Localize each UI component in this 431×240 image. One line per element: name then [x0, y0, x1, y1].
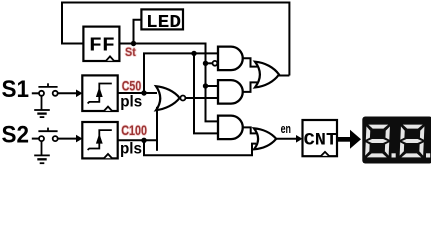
wire LED tap — [134, 20, 142, 44]
wire AND3 to OR2 — [243, 127, 256, 133]
wire C100 down around to OR2 — [144, 140, 256, 155]
wire S2 to pulse box — [58, 138, 78, 140]
wire C50 branch up to AND1 — [144, 53, 218, 93]
wire feedback top — [62, 3, 289, 76]
node St-AND1 junction — [203, 61, 208, 66]
decimal point 1 — [392, 153, 396, 157]
node C50 junction — [141, 90, 146, 95]
svg-text:pls: pls — [120, 141, 142, 158]
wire OR1 output — [279, 75, 289, 77]
gate AND3 — [218, 116, 243, 140]
wire St to AND1 bubble — [206, 62, 213, 64]
LED indicator — [141, 9, 183, 33]
svg-text:C100: C100 — [121, 122, 147, 138]
pulse shaper box C50 — [82, 75, 117, 111]
wire C50 to NOR — [118, 92, 157, 94]
gate OR2 (enable) — [254, 128, 276, 149]
wire C100 up to NOR second input — [156, 107, 158, 151]
wire AND2 to OR1 — [243, 82, 257, 92]
push button S2 — [38, 128, 57, 142]
arrow into CNT — [296, 135, 303, 143]
wire NOR output to AND2 — [185, 97, 218, 99]
arrow into C100 box — [76, 135, 83, 143]
digit 1 (8) — [365, 125, 390, 158]
wire AND1 to OR1 — [243, 58, 257, 66]
wire S1 to pulse box — [58, 92, 78, 94]
seven-segment display panel — [362, 117, 431, 164]
wire C50 branch down to AND3 — [194, 53, 218, 133]
svg-text:pls: pls — [120, 93, 142, 110]
node St-AND2 junction — [203, 83, 208, 88]
pulse shaper box C100 — [82, 122, 117, 158]
svg-text:LED: LED — [146, 13, 181, 33]
node C50 upper junction — [191, 51, 196, 56]
big arrow CNT to display — [338, 130, 361, 149]
svg-text:S2: S2 — [2, 122, 30, 149]
wire S1 label stub — [32, 92, 39, 94]
counter CNT — [303, 120, 338, 156]
gate NOR (C50/C100) — [156, 86, 185, 110]
arrow into C50 box — [76, 90, 83, 98]
svg-text:FF: FF — [89, 34, 115, 56]
ground (S1) — [34, 96, 50, 117]
wire OR2 to CNT en — [276, 138, 296, 140]
flip-flop U1 FF — [83, 27, 119, 61]
svg-text:St: St — [125, 45, 136, 59]
ground (S2) — [34, 141, 50, 163]
wire C100 out — [118, 139, 157, 141]
wire S2 label stub — [32, 138, 39, 140]
digit 2 (8) — [400, 125, 425, 158]
svg-text:CNT: CNT — [304, 130, 338, 150]
svg-text:C50: C50 — [122, 77, 142, 93]
svg-text:en: en — [281, 122, 291, 136]
decimal point 2 — [426, 153, 430, 157]
svg-text:S1: S1 — [2, 76, 30, 103]
wire St from FF — [119, 44, 218, 122]
wire St to AND2 top — [206, 85, 219, 87]
gate AND1 (negated lower input) — [213, 47, 243, 71]
gate AND2 — [218, 80, 243, 104]
node St junction — [131, 41, 136, 46]
gate OR1 (to feedback) — [255, 62, 279, 88]
node C100 junction — [141, 138, 146, 143]
push button S1 — [38, 83, 57, 96]
